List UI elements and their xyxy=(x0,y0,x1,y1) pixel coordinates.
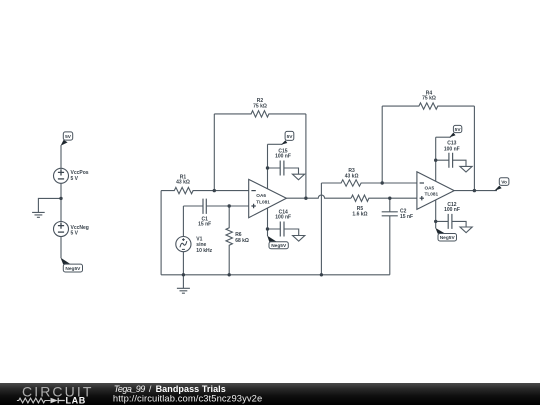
junction R1/R2 inverting node xyxy=(213,189,216,192)
resistor R1 xyxy=(161,187,249,193)
voltage source VccNeg xyxy=(54,222,69,237)
svg-text:100 nF: 100 nF xyxy=(444,146,460,152)
svg-text:Neg5V: Neg5V xyxy=(271,243,287,249)
wire stage2 ground vertical xyxy=(320,183,322,275)
svg-text:100 nF: 100 nF xyxy=(275,153,291,159)
logo resistor zigzag xyxy=(17,398,50,403)
ground GND2 below V1 xyxy=(182,275,184,289)
capacitor C13 xyxy=(436,160,466,166)
op-amp OA5 TL081 xyxy=(417,172,454,210)
wire R2 right vertical to OA6 output xyxy=(305,114,307,198)
wire OA5 bottom power stub xyxy=(435,200,437,229)
svg-text:15 nF: 15 nF xyxy=(400,214,413,220)
junction C13/V+ pin OA5 xyxy=(434,159,437,162)
svg-text:OA6: OA6 xyxy=(256,193,266,198)
svg-text:TL081: TL081 xyxy=(256,199,270,204)
resistor R2 xyxy=(214,111,306,117)
capacitor C1 xyxy=(183,205,248,207)
wire to 5V flag above OA6 xyxy=(268,143,283,145)
svg-text:10 kHz: 10 kHz xyxy=(196,248,212,254)
resistor R4 xyxy=(382,103,474,109)
svg-text:75 kΩ: 75 kΩ xyxy=(422,96,436,102)
resistor R6 xyxy=(226,206,232,275)
svg-text:43 kΩ: 43 kΩ xyxy=(176,180,190,186)
logo diode xyxy=(51,398,58,404)
junction OA6 output node xyxy=(304,197,307,200)
flag 5V (above OA6) xyxy=(281,131,294,144)
svg-text:75 kΩ: 75 kΩ xyxy=(253,104,267,110)
wire V1 bottom xyxy=(182,252,184,275)
svg-text:100 nF: 100 nF xyxy=(444,207,460,213)
wire to 5V flag above OA5 xyxy=(436,136,451,138)
svg-text:68 kΩ: 68 kΩ xyxy=(235,238,249,244)
capacitor C14 xyxy=(268,229,299,236)
wire 5V flag to VccPos xyxy=(60,145,62,168)
wire VccPos to VccNeg with junction xyxy=(60,183,62,221)
wire bottom ground rail xyxy=(161,274,390,276)
flag 5V (left rail) xyxy=(61,132,73,146)
svg-text:Neg5V: Neg5V xyxy=(440,235,456,241)
wire OA6 bottom power stub xyxy=(267,208,269,236)
resistor R3 xyxy=(321,180,417,186)
op-amp OA6 TL081 xyxy=(249,179,287,217)
wire OA5 output to Vo xyxy=(454,190,497,192)
junction V1/ground rail xyxy=(182,273,185,276)
junction R5/C2 node xyxy=(388,197,391,200)
junction C12/V- pin OA5 xyxy=(434,220,437,223)
flag Neg5V (left rail) xyxy=(61,258,83,272)
wire OA6 output to R5 with hop over ground wire xyxy=(286,195,351,198)
flag Neg5V (below OA6) xyxy=(267,236,288,249)
ground GND6 (triangle) at C12 xyxy=(460,227,472,233)
wire R4 left vertical xyxy=(381,106,383,183)
svg-text:LAB: LAB xyxy=(66,396,86,405)
junction R3/R4 node xyxy=(381,181,384,184)
junction stage2 ground rail xyxy=(320,273,323,276)
voltage source VccPos xyxy=(54,168,69,183)
capacitor C15 xyxy=(268,168,299,174)
ground GND3 (triangle) at C15 xyxy=(292,174,304,180)
flag Vo (output) xyxy=(494,178,509,191)
svg-text:5V: 5V xyxy=(65,134,72,140)
wire R2 left vertical xyxy=(213,114,215,191)
wire OA5 top power stub xyxy=(435,137,437,181)
ground GND5 (triangle) at C13 xyxy=(460,166,472,172)
svg-text:43 kΩ: 43 kΩ xyxy=(345,174,359,180)
svg-text:http://circuitlab.com/c3t5ncz9: http://circuitlab.com/c3t5ncz93yv2e xyxy=(113,392,262,403)
flag Neg5V (below OA5) xyxy=(435,228,456,241)
wire ground branch left rail xyxy=(38,198,61,212)
wire OA6 top power stub xyxy=(267,144,269,189)
svg-text:Vo: Vo xyxy=(501,180,507,186)
wire VccNeg to Neg5V flag xyxy=(60,237,62,259)
svg-text:TL081: TL081 xyxy=(425,192,439,197)
svg-text:15 nF: 15 nF xyxy=(198,221,211,227)
junction C1/R6 node xyxy=(228,204,231,207)
capacitor C12 xyxy=(436,221,466,227)
ground GND4 (triangle) at C14 xyxy=(293,236,305,242)
svg-text:OA5: OA5 xyxy=(425,186,435,191)
junction C15/V+ pin OA6 xyxy=(266,166,269,169)
wire R4 right vertical to OA5 output xyxy=(473,106,475,191)
svg-text:Neg5V: Neg5V xyxy=(65,266,81,272)
svg-text:5 V: 5 V xyxy=(71,231,79,237)
svg-text:5V: 5V xyxy=(455,127,462,133)
junction R6/ground rail xyxy=(228,273,231,276)
capacitor C2 xyxy=(389,198,391,275)
svg-text:1.6 kΩ: 1.6 kΩ xyxy=(352,211,367,217)
flag 5V (above OA5) xyxy=(449,125,462,137)
wire R1 left vertical to bottom rail xyxy=(160,191,162,275)
wire V1 top xyxy=(182,206,184,237)
junction C14/V- pin OA6 xyxy=(266,227,269,230)
junction rail/ground node xyxy=(59,197,62,200)
svg-text:5 V: 5 V xyxy=(71,176,79,182)
resistor R5 xyxy=(351,195,417,201)
svg-text:100 nF: 100 nF xyxy=(275,215,291,221)
ground GND1 bars xyxy=(32,212,45,217)
voltage source V1 (sine) xyxy=(176,237,191,252)
svg-text:5V: 5V xyxy=(287,134,294,140)
junction OA5 output node xyxy=(473,189,476,192)
